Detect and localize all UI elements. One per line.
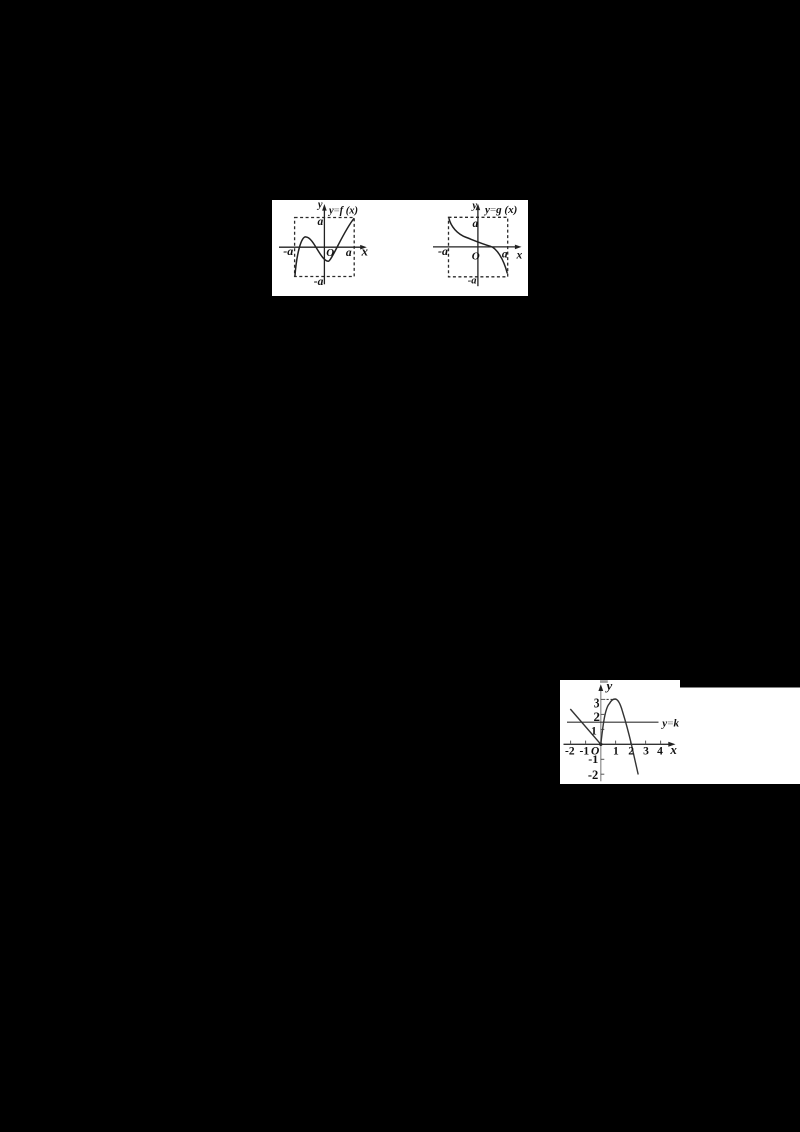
x-axis arrow graph3 [668,742,675,747]
svg-text:3: 3 [643,745,649,757]
svg-text:4: 4 [657,745,663,757]
svg-text:x: x [361,243,369,258]
svg-text:y=g (x): y=g (x) [483,204,517,216]
svg-text:O: O [472,251,480,263]
svg-text:a: a [502,249,508,261]
svg-text:-a: -a [438,244,448,258]
svg-text:y: y [316,200,323,211]
left line segment to origin [570,709,601,744]
y-axis graph3 (gray) [600,688,602,782]
x-axis graph2 [433,246,517,248]
dashed box graph1 [295,218,355,277]
svg-text:O: O [326,247,334,259]
svg-text:O: O [591,746,599,758]
x tick 4 [660,741,662,745]
svg-text:x: x [669,742,677,757]
svg-text:1: 1 [613,745,619,757]
svg-text:1: 1 [591,726,597,738]
svg-text:2: 2 [628,745,634,757]
svg-text:-a: -a [468,275,477,286]
dashed line to peak [607,698,615,700]
x-axis graph1 [279,246,363,248]
svg-text:-1: -1 [580,745,590,757]
x-axis graph3 [564,743,671,745]
x tick -1 [585,741,587,745]
curve y=f(x) [295,218,354,276]
x-axis arrow graph2 [515,245,522,250]
svg-text:a: a [317,216,323,228]
svg-text:-a: -a [283,244,293,258]
y-axis graph2 [477,207,479,286]
svg-text:a: a [346,247,352,259]
svg-text:y: y [605,678,613,693]
horizontal line y=k [567,721,659,723]
parabola curve [601,699,638,775]
y tick 2 [601,713,605,715]
x-axis arrow graph1 [360,245,367,250]
x tick 1 [615,741,617,745]
svg-text:y=k: y=k [660,717,679,729]
y-axis arrow graph1 [322,204,327,211]
svg-text:2: 2 [594,709,601,724]
x tick 2 [630,741,632,745]
svg-text:-a: -a [314,276,324,288]
y tick -1 [601,758,605,760]
origin dot [599,743,602,746]
svg-text:a: a [472,218,478,230]
y-axis graph1 [323,208,325,285]
y tick 3 (solid part) [601,698,606,700]
dashed box graph2 [449,217,508,276]
svg-text:y=f (x): y=f (x) [327,206,358,217]
white panel top (two graphs) [272,200,528,296]
svg-text:-2: -2 [588,768,598,782]
curve y=g(x) [449,218,507,273]
y-axis arrow graph3 [598,684,603,691]
x tick 3 [645,741,647,745]
y-axis arrow graph2 [476,204,481,211]
svg-text:x: x [516,249,523,261]
white panel bottom-right part [680,688,800,785]
white panel bottom-left part [560,680,680,784]
y tick 1 [601,728,605,730]
gray smudge above y-axis [600,680,608,683]
y tick -2 [601,773,605,775]
svg-text:-2: -2 [565,745,575,757]
svg-text:y: y [470,201,477,212]
x tick -2 [570,741,572,745]
